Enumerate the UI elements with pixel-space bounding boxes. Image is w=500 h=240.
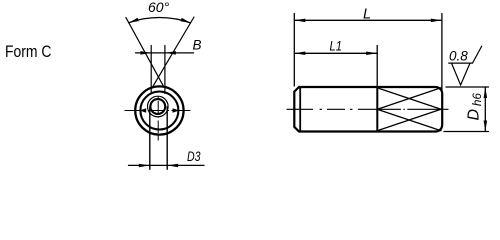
svg-text:B: B	[193, 38, 202, 53]
D arrow down	[484, 121, 488, 132]
60 deg cone line right	[152, 17, 194, 87]
B dimension line	[136, 52, 194, 54]
centerline horizontal (left view)	[125, 110, 191, 112]
L1 dimension line	[294, 52, 377, 54]
B arrow right	[165, 51, 176, 55]
small thin circle	[148, 96, 169, 117]
outer circle (pin dia)	[135, 86, 183, 134]
D3 arrow right	[167, 164, 178, 168]
D dimension extension lines	[444, 87, 489, 132]
small bold circle (hole)	[150, 99, 165, 114]
D arrow up	[484, 87, 488, 98]
knurl diagonals upper	[377, 88, 441, 110]
D dimension line	[484, 87, 486, 132]
L1 arrow right	[366, 52, 377, 56]
B extension line right	[164, 46, 166, 94]
svg-text:60°: 60°	[148, 0, 170, 15]
surface roughness symbol 0.8	[449, 46, 482, 85]
L1 extension line	[376, 46, 378, 87]
60 deg cone line left	[126, 18, 164, 87]
L extension line left	[293, 14, 295, 87]
B arrow left	[140, 51, 151, 55]
L arrow right	[431, 19, 442, 23]
60 arc arrow left	[129, 18, 139, 23]
B extension line left	[150, 46, 152, 94]
chamfer edge line	[299, 87, 301, 132]
svg-text:L1: L1	[330, 38, 343, 54]
L1 arrow left	[294, 52, 305, 56]
D3 arrow left	[139, 164, 150, 168]
svg-text:L: L	[363, 6, 371, 22]
centerline vertical (left view)	[157, 97, 159, 141]
diameter arrowhead left on middle circle	[140, 108, 147, 113]
60 arc arrow right	[181, 18, 191, 23]
L dimension line	[294, 19, 442, 21]
L arrow left	[294, 19, 305, 23]
svg-text:Form C: Form C	[5, 42, 52, 61]
L extension line right	[441, 14, 443, 93]
centerline horizontal (side view)	[287, 108, 449, 110]
60 deg dimension arc	[129, 18, 191, 23]
svg-text:D3: D3	[187, 149, 201, 164]
pin outline	[294, 87, 442, 132]
D3 dimension line	[129, 164, 205, 166]
knurl diagonals lower	[377, 109, 441, 130]
D3 extension line right	[166, 107, 168, 169]
middle circle (chamfer edge)	[140, 92, 178, 130]
diameter arrowhead right on middle circle	[173, 108, 180, 113]
knurl boundary line	[376, 87, 378, 132]
D3 extension line left	[149, 107, 151, 169]
svg-text:0.8: 0.8	[449, 49, 468, 64]
